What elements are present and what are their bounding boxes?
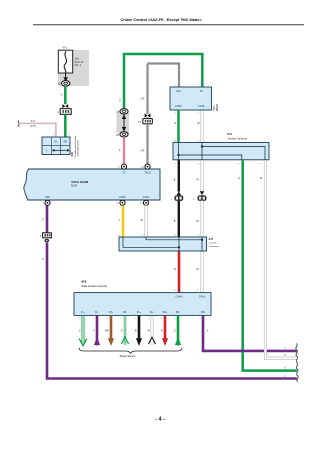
svg-text:R: R [174,268,176,271]
svg-text:G: G [284,368,286,370]
svg-text:RB: RB [64,141,68,144]
svg-text:G: G [174,122,176,125]
svg-text:E71: E71 [228,132,233,136]
svg-text:G: G [174,330,176,333]
svg-text:RR+: RR+ [163,311,168,314]
svg-text:Speed Sensor: Speed Sensor [120,355,136,358]
svg-text:CANH: CANH [119,196,126,199]
svg-text:RR-: RR- [176,311,180,314]
svg-text:RL-: RL- [150,311,154,314]
svg-text:TAC: TAC [176,90,181,93]
svg-text:SP1: SP1 [201,311,206,314]
svg-text:G: G [79,330,81,333]
svg-text:- 4 -: - 4 - [155,417,165,423]
svg-text:CANH: CANH [175,105,182,108]
svg-text:RL+: RL+ [137,311,142,314]
svg-text:Junction: Junction [209,242,218,245]
svg-text:BR: BR [105,330,109,333]
svg-text:GR: GR [141,149,145,152]
svg-text:Switch Assembly: Switch Assembly [77,139,80,156]
svg-text:TC: TC [122,171,125,174]
svg-text:FR-: FR- [123,311,127,314]
svg-text:NO. 2: NO. 2 [75,64,82,67]
svg-text:R: R [161,330,163,333]
svg-text:P-G: P-G [31,120,36,123]
svg-text:G: G [121,330,123,333]
svg-text:CANL: CANL [143,196,150,199]
svg-text:A47: A47 [209,238,214,241]
svg-text:Junction Connector: Junction Connector [228,137,248,140]
svg-text:DLC3: DLC3 [216,104,219,111]
svg-text:CANH: CANH [176,295,183,298]
svg-text:S40: S40 [71,151,74,156]
svg-text:B66: B66 [82,279,87,283]
svg-text:CANL: CANL [199,295,206,298]
svg-text:SFD: SFD [45,196,50,199]
svg-text:GR: GR [141,97,145,100]
svg-text:(A/T): (A/T) [30,125,36,128]
svg-text:CANL: CANL [198,105,205,108]
svg-text:Cruise Control <2AZ-FE , Excep: Cruise Control <2AZ-FE , Except TMC Made… [120,17,202,22]
svg-text:G: G [238,177,240,180]
svg-text:G: G [61,93,63,96]
svg-text:TACH: TACH [144,171,150,174]
svg-text:Park/Neutral Position: Park/Neutral Position [74,135,77,156]
svg-text:W-G: W-G [62,47,67,50]
svg-text:FL+: FL+ [81,311,86,314]
svg-text:ECM: ECM [71,185,77,188]
svg-text:G: G [119,99,121,102]
svg-text:Connector: Connector [209,245,219,248]
svg-text:FL-: FL- [95,311,99,314]
svg-text:Brake Actuator Assembly: Brake Actuator Assembly [82,285,108,288]
svg-text:TC: TC [200,90,204,93]
svg-text:FR+: FR+ [109,311,114,314]
